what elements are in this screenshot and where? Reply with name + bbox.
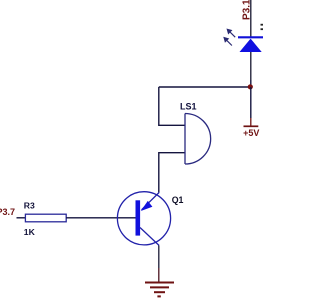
transistor Q1 emitter line (top, with arrow toward base) [142,192,160,209]
transistor Q1 collector line (bottom) [140,228,159,246]
svg-text:P3.7: P3.7 [0,207,15,217]
wire: P3.7 to resistor [17,217,26,219]
svg-text:+5V: +5V [243,128,259,138]
transistor Q1 base bar [136,200,141,235]
wire: left rail upper segment (to speaker top stub) [159,87,185,125]
wire: speaker bottom stub to collector rail [159,153,185,193]
svg-text:R3: R3 [24,201,35,211]
wire: LED to junction [250,80,252,87]
speaker LS1 body [185,114,211,165]
ground [145,283,174,297]
wire: resistor to transistor base [66,217,135,219]
junction dot [248,84,253,89]
wire: top pin above LED to image top at x=250.8 [250,0,252,37]
LED triangle (anode, pointing up) [240,39,262,52]
LED D (cut-off designator dashes at right edge) [261,24,264,26]
wire: emitter rail down to ground [158,245,160,268]
svg-text:Q1: Q1 [172,195,184,205]
wire: junction down to +5V [250,87,252,118]
LED emission arrow 2 [224,38,232,46]
LED cathode bar [238,36,264,38]
wire: horizontal junction to left rail [159,86,252,88]
svg-text:LS1: LS1 [180,101,197,111]
transistor Q1 emitter arrow [141,201,153,211]
resistor R3 body [25,214,66,222]
power +5V [243,118,259,138]
LED emission arrow 1 [227,29,235,37]
svg-text:1K: 1K [24,227,36,237]
LED bottom pin [250,52,252,80]
transistor Q1 circle [117,192,170,245]
svg-text:P3.1: P3.1 [242,0,253,20]
